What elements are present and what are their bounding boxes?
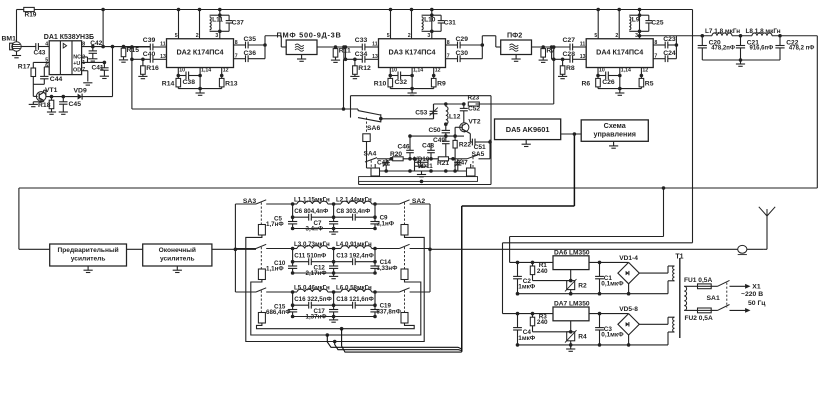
ground under DA3: [408, 89, 417, 96]
svg-text:C31: C31: [444, 20, 456, 27]
inductor L5 0,46мкГн: [291, 285, 330, 294]
ground under C45: [59, 104, 68, 114]
ground under control box: [609, 141, 618, 148]
wire DA6 out: [589, 261, 629, 263]
label 220V: [741, 291, 763, 298]
svg-text:1мкФ: 1мкФ: [518, 335, 535, 342]
svg-text:VD5-8: VD5-8: [619, 306, 638, 313]
svg-text:VT2: VT2: [468, 118, 480, 125]
svg-text:L2 1,44мкГн: L2 1,44мкГн: [336, 197, 372, 204]
svg-text:управления: управления: [593, 129, 635, 138]
svg-text:R20: R20: [390, 151, 402, 158]
wire DA1 pin6 to C44: [44, 67, 49, 77]
wire C43 to DA1 pin4: [38, 46, 49, 48]
capacitor C44: [40, 76, 62, 83]
switch label SA2: [412, 198, 425, 205]
svg-text:5: 5: [387, 33, 390, 39]
wire VD9 riser: [111, 45, 115, 97]
capacitor C17 1,37нФ: [306, 305, 339, 320]
wire DA3 bottom pins: [389, 67, 441, 77]
svg-text:R16: R16: [146, 65, 159, 72]
wire PMF to DA3 input: [317, 46, 362, 48]
inductor L1 1,15мкГн: [291, 197, 330, 206]
resistor R10: [374, 76, 393, 89]
svg-text:478,2 пФ: 478,2 пФ: [789, 46, 814, 52]
svg-text:7: 7: [447, 54, 450, 60]
wire supply to DA7 rail: [503, 243, 693, 314]
svg-text:Предварительный: Предварительный: [58, 246, 119, 254]
wire PF2 to DA4 input: [532, 46, 571, 48]
svg-text:12: 12: [642, 67, 648, 73]
capacitor C21 916,6пФ: [736, 34, 773, 60]
svg-text:7: 7: [654, 54, 657, 60]
wire R23 bus: [434, 102, 554, 119]
resistor R9: [431, 76, 446, 89]
svg-text:VD9: VD9: [74, 88, 87, 95]
wire DA5 to control box: [561, 133, 582, 135]
switch SA1 linkage: [707, 283, 727, 308]
svg-text:DA1 К538УН3Б: DA1 К538УН3Б: [44, 34, 94, 41]
wire FU1 to SA1: [711, 285, 717, 287]
variable resistor R2: [565, 270, 587, 292]
svg-text:12: 12: [223, 67, 229, 73]
svg-text:L6 0,58мкГн: L6 0,58мкГн: [336, 285, 372, 292]
svg-text:VD11: VD11: [418, 163, 434, 170]
svg-text:837,8пФ: 837,8пФ: [376, 308, 401, 315]
svg-text:R22: R22: [459, 142, 471, 149]
svg-text:L5 0,46мкГн: L5 0,46мкГн: [294, 285, 330, 292]
switch SA2 row3: [375, 288, 430, 292]
wire DA3 bottom rail: [390, 76, 433, 91]
wire rail DA7: [503, 312, 554, 316]
regulator DA6 LM350: [553, 249, 590, 269]
wire control bundle 1: [326, 333, 462, 349]
wire series cap branch row3: [291, 292, 377, 307]
relay coil SA6: [363, 118, 371, 169]
capacitor C23: [663, 36, 676, 48]
wire supply drop to pin8 line: [101, 8, 105, 49]
capacitor C43: [34, 43, 46, 56]
resistor R3 240: [530, 313, 570, 331]
capacitor C48: [422, 143, 435, 161]
quartz ZQ1: [371, 164, 380, 176]
primary winding T1: [684, 286, 686, 310]
inductor L9 tank coil: [629, 15, 640, 31]
wire DA3 out to PF2: [482, 36, 500, 47]
svg-text:13: 13: [372, 54, 378, 60]
wire DA2 pin7: [234, 54, 246, 60]
svg-text:C33: C33: [355, 37, 368, 44]
svg-text:C32: C32: [395, 79, 408, 86]
svg-text:X1: X1: [752, 283, 761, 290]
switch SA2 row2: [375, 244, 430, 248]
inductor L4 0,91мкГн: [328, 241, 377, 250]
svg-text:C43: C43: [34, 50, 46, 57]
svg-text:C50: C50: [429, 127, 441, 134]
capacitor C1 0,1мкФ: [595, 261, 624, 294]
switch SA3 row1: [235, 200, 292, 204]
capacitor C14 1,33нФ: [370, 259, 398, 273]
svg-text:C16 322,5пФ: C16 322,5пФ: [294, 296, 332, 303]
wire DA3 pin7: [446, 54, 458, 60]
switch SA3 row2: [235, 244, 292, 248]
capacitor C7 3,4нФ: [306, 217, 339, 232]
svg-text:R10: R10: [374, 81, 387, 88]
svg-text:11: 11: [160, 41, 166, 47]
resistor R13: [219, 76, 237, 89]
capacitor C33: [355, 37, 368, 50]
wire DA4 pin8: [653, 40, 665, 46]
capacitor C51: [472, 139, 490, 151]
wire C34 to pin13: [365, 54, 379, 60]
svg-text:1,14: 1,14: [413, 67, 423, 73]
ground under C41: [100, 70, 109, 78]
resistor R23: [468, 95, 480, 106]
svg-text:5: 5: [594, 33, 597, 39]
svg-text:OD: OD: [73, 67, 81, 73]
capacitor C26: [598, 72, 620, 87]
svg-text:11: 11: [580, 41, 586, 47]
svg-text:C41: C41: [92, 64, 104, 71]
capacitor C46: [398, 134, 414, 160]
capacitor C3 0,1мкФ: [595, 312, 624, 345]
svg-text:10: 10: [179, 67, 185, 73]
op-amp U DA1 К538УН3Б: [44, 34, 94, 75]
label 50Hz: [748, 300, 766, 307]
terminal X1 label: [752, 283, 761, 290]
svg-text:478,2пФ: 478,2пФ: [711, 46, 735, 52]
wire branch DA2 pin13: [130, 45, 150, 59]
wire DA4 pin2 supply: [615, 8, 621, 40]
relay coil SA3 row2 left: [258, 247, 265, 280]
wire rail DA6: [510, 261, 553, 265]
wire R23 to DA4 branch: [552, 45, 556, 104]
capacitor C13 192,4пФ: [336, 253, 374, 265]
svg-text:R19: R19: [25, 12, 37, 19]
wire BM1 to C43: [21, 46, 36, 48]
secondary winding 2: [673, 317, 675, 332]
svg-text:13: 13: [580, 54, 586, 60]
wire shunt rail row2: [291, 271, 377, 275]
wire VT1 collector rail: [44, 90, 113, 96]
ground under DA2: [196, 89, 205, 96]
svg-text:7: 7: [235, 54, 238, 60]
svg-text:FU1 0,5A: FU1 0,5A: [684, 277, 712, 284]
ground under output amp: [173, 266, 182, 273]
capacitor C36: [244, 50, 257, 62]
svg-text:R12: R12: [358, 65, 371, 72]
svg-text:C49: C49: [433, 137, 445, 144]
svg-text:SA6: SA6: [367, 125, 380, 132]
wire DA2 output join: [248, 36, 267, 59]
svg-text:C46: C46: [398, 143, 410, 150]
switch SA6: [358, 111, 383, 132]
wire row SA4 to R21: [410, 157, 438, 161]
svg-text:C53: C53: [415, 110, 427, 117]
fuse FU1 0,5A: [684, 277, 712, 289]
capacitor C32: [390, 72, 412, 87]
ground under DA4: [615, 89, 624, 96]
wire DA4 pin7: [653, 54, 665, 60]
svg-text:11: 11: [372, 41, 378, 47]
svg-text:2,17нФ: 2,17нФ: [306, 270, 328, 277]
svg-text:DA6 LM350: DA6 LM350: [554, 249, 590, 256]
switch SA2 row1: [375, 200, 430, 204]
wire DA4 pin3 tank: [635, 8, 641, 40]
relay coil SA2 row1 right: [401, 203, 408, 236]
wire DA4 bottom rail: [598, 76, 641, 91]
switch SA1 top: [718, 280, 751, 288]
filter Z2 ПФ2: [501, 30, 532, 54]
svg-text:T1: T1: [675, 254, 683, 261]
svg-text:L12: L12: [449, 114, 461, 121]
capacitor C53 trimmer: [415, 104, 438, 119]
svg-text:L9: L9: [632, 17, 640, 24]
switch SA4: [364, 151, 385, 162]
svg-text:3: 3: [427, 33, 430, 39]
svg-text:1,14: 1,14: [201, 67, 211, 73]
svg-text:NC: NC: [73, 55, 81, 61]
wire rail drops: [414, 166, 416, 171]
svg-text:C13 192,4пФ: C13 192,4пФ: [336, 253, 374, 260]
switch SA1 bottom: [711, 305, 750, 313]
resistor R22: [453, 136, 471, 171]
ground filter row2: [329, 273, 338, 279]
svg-text:C11 510пФ: C11 510пФ: [294, 253, 327, 260]
capacitor C28: [563, 51, 576, 63]
svg-text:L4 0,91мкГн: L4 0,91мкГн: [336, 241, 372, 248]
relay coil SA3 row3 left: [258, 291, 265, 324]
svg-text:C37: C37: [232, 20, 244, 27]
capacitor C24: [663, 50, 676, 62]
wire input node DA4: [543, 46, 570, 48]
svg-text:Оконечный: Оконечный: [159, 246, 196, 254]
capacitor C31 tank: [432, 15, 456, 31]
resistor R5: [639, 76, 654, 89]
capacitor C4 1мкФ: [513, 314, 536, 345]
capacitor C44 trimmer osc: [377, 159, 390, 171]
resistor R8 to ground: [558, 58, 575, 79]
antenna WA1: [759, 207, 775, 216]
diode VD11: [415, 162, 434, 170]
svg-text:L10: L10: [424, 17, 436, 24]
svg-text:C25: C25: [651, 20, 663, 27]
wire DA3 pin5 supply: [387, 8, 393, 40]
svg-text:1,7нФ: 1,7нФ: [266, 221, 284, 228]
svg-text:8: 8: [654, 40, 657, 46]
wire control bundle 3: [340, 327, 462, 352]
svg-text:VT1: VT1: [45, 87, 58, 94]
svg-text:FU2 0,5A: FU2 0,5A: [685, 315, 713, 322]
jack X antenna circle: [738, 245, 747, 254]
capacitor C49: [433, 136, 450, 157]
bridge rectifier VD1-4: [618, 255, 639, 284]
wire C28 to pin13: [573, 54, 587, 60]
svg-text:2: 2: [196, 33, 199, 39]
svg-text:BM1: BM1: [2, 36, 17, 43]
diode VD10: [414, 156, 430, 164]
inductor L6 0,58мкГн: [328, 285, 377, 294]
svg-text:~220 В: ~220 В: [741, 291, 763, 298]
switch label SA3: [243, 198, 256, 205]
capacitor C25 tank: [640, 15, 664, 31]
wire C27 to pin11: [573, 41, 587, 47]
svg-text:C6 804,4пФ: C6 804,4пФ: [294, 208, 329, 215]
capacitor C38: [178, 72, 200, 87]
wire mid bus to preamp: [18, 188, 20, 249]
svg-text:C44: C44: [377, 159, 389, 166]
inductor L3 0,73мкГн: [291, 241, 330, 250]
wire SA6 pole to C53: [381, 118, 434, 120]
wire top supply bus: [17, 9, 693, 11]
wire DA1 pin8 output: [82, 46, 151, 48]
resistor R18: [38, 95, 54, 109]
wire C44 down: [33, 79, 44, 85]
ground under VT1 emitter: [29, 100, 44, 106]
control box Схема управления: [581, 120, 648, 141]
dashed link SA4: [370, 161, 372, 168]
wire control line thick: [462, 132, 576, 352]
svg-text:8: 8: [235, 40, 238, 46]
quartz ZQ2: [467, 164, 476, 176]
svg-text:SA1: SA1: [707, 295, 720, 302]
svg-text:C28: C28: [563, 51, 576, 58]
wire DA4 pin5 supply: [594, 8, 600, 40]
wire relay loop outer: [246, 235, 424, 342]
capacitor C41: [92, 61, 109, 72]
wire input node DA3: [336, 46, 363, 48]
switch SA3 row3: [235, 288, 292, 292]
svg-text:L11: L11: [212, 17, 223, 24]
svg-text:C52: C52: [468, 106, 480, 113]
capacitor C10 1,1нФ: [266, 260, 297, 273]
svg-text:C18 121,6пФ: C18 121,6пФ: [336, 296, 374, 303]
resistor R15 to ground: [119, 45, 139, 62]
wire shunt rail row3: [291, 315, 377, 319]
svg-text:1,14: 1,14: [621, 67, 631, 73]
svg-text:R6: R6: [582, 81, 591, 88]
wire DA4 pin3 to antenna line: [638, 34, 712, 38]
svg-text:R9: R9: [437, 81, 446, 88]
wire DA7 adj: [570, 321, 572, 345]
block output amp Оконечный усилитель: [143, 244, 212, 266]
ground under preamp: [84, 266, 93, 273]
wire shunt rail row1: [291, 227, 377, 231]
wire long mid bus: [19, 187, 817, 189]
secondary winding 1: [673, 266, 675, 281]
svg-text:C27: C27: [563, 37, 576, 44]
svg-text:1,1нФ: 1,1нФ: [266, 266, 284, 273]
svg-text:7: 7: [82, 67, 85, 73]
resistor R12 to ground: [350, 58, 371, 79]
svg-text:C48: C48: [422, 143, 434, 150]
wire C39 to pin11: [153, 41, 167, 47]
bridge rectifier VD5-8: [618, 306, 639, 335]
wire DA2 bottom rail: [178, 76, 221, 91]
wire branch DA3 pin13: [342, 45, 362, 59]
svg-text:L3 0,73мкГн: L3 0,73мкГн: [294, 241, 330, 248]
svg-text:+U: +U: [73, 61, 80, 67]
capacitor C20 478,2пФ: [698, 34, 735, 60]
wire output amp to filter: [212, 248, 256, 252]
transformer T1 core: [675, 254, 683, 338]
wire DA3 pin3 tank: [427, 8, 433, 40]
wire supply drop right: [692, 10, 694, 243]
wire filter left bus: [234, 204, 236, 292]
svg-text:5: 5: [175, 33, 178, 39]
svg-text:C30: C30: [456, 50, 469, 57]
inductor L12: [446, 104, 461, 124]
wire DA1 pin5 to R17: [33, 62, 49, 68]
wire relay loop middle: [251, 280, 421, 336]
wire ladder bottom rail: [702, 58, 780, 62]
svg-text:R8: R8: [566, 65, 575, 72]
wire bridge 1 to transformer top: [639, 266, 674, 273]
wire OD pin to ground: [82, 71, 88, 82]
svg-text:3: 3: [215, 33, 218, 39]
capacitor C8 303,4пФ: [336, 208, 371, 220]
wire DA1 out to DA2 node: [126, 46, 150, 48]
ground filter row3: [329, 317, 338, 323]
wire oscillator rail: [380, 169, 467, 173]
capacitor C15 686,4пФ: [266, 303, 297, 316]
ground under PF2: [512, 55, 521, 62]
ground under DA5: [522, 140, 531, 147]
svg-text:3: 3: [635, 33, 638, 39]
svg-text:C26: C26: [602, 79, 615, 86]
resistor R16 to ground: [138, 58, 159, 79]
inductor L2 1,44мкГн: [328, 197, 377, 206]
box oscillator group: [359, 177, 478, 184]
wire DA2 feedback to SA6: [130, 45, 358, 110]
svg-text:усилитель: усилитель: [71, 255, 106, 262]
svg-text:C24: C24: [663, 50, 676, 57]
transistor VT1: [36, 87, 57, 102]
svg-text:C35: C35: [244, 36, 257, 43]
svg-text:4: 4: [45, 42, 48, 48]
wire DA2 pin5 supply: [175, 8, 181, 40]
wire antenna line right drop: [816, 36, 818, 188]
wire +U pin to C41: [82, 61, 105, 63]
capacitor C50: [429, 122, 451, 136]
capacitor C29: [456, 36, 469, 48]
svg-text:8: 8: [447, 40, 450, 46]
relay coil SA3 row1 left: [258, 203, 265, 236]
wire filter output line: [430, 248, 763, 250]
capacitor C37 tank: [220, 15, 244, 31]
svg-text:C8 303,4пФ: C8 303,4пФ: [336, 208, 371, 215]
svg-text:R2: R2: [578, 282, 587, 289]
svg-text:R4: R4: [578, 334, 587, 341]
filter Z1 ПМФ 500-9Д-3В: [277, 30, 342, 54]
svg-text:240: 240: [537, 268, 548, 275]
wire DA4 output join: [668, 36, 678, 59]
wire input node DA2: [124, 46, 151, 48]
svg-text:10: 10: [599, 67, 605, 73]
svg-text:2: 2: [615, 33, 618, 39]
capacitor C16 322,5пФ: [294, 296, 332, 308]
wire oscillator loop top: [351, 96, 492, 185]
diode VD9: [74, 88, 87, 100]
wire control bundle 2: [333, 340, 462, 351]
svg-text:R14: R14: [162, 81, 175, 88]
wire NC pin stub: [82, 57, 88, 62]
svg-text:12: 12: [435, 67, 441, 73]
wire L8 to right edge: [772, 35, 817, 37]
wire primary bottom to FU2: [684, 309, 697, 311]
inductor L10 tank coil: [422, 15, 436, 31]
capacitor C45: [59, 95, 81, 108]
